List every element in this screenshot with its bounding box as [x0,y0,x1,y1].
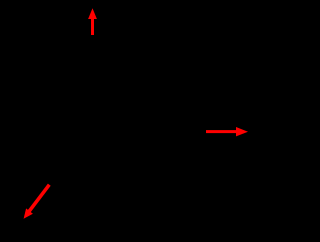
vector arrow V2 (right, middle right) [206,127,248,136]
vector arrow V3 (down-left, bottom left) [24,184,51,219]
vector arrow V1 (up, top center) [88,8,97,35]
